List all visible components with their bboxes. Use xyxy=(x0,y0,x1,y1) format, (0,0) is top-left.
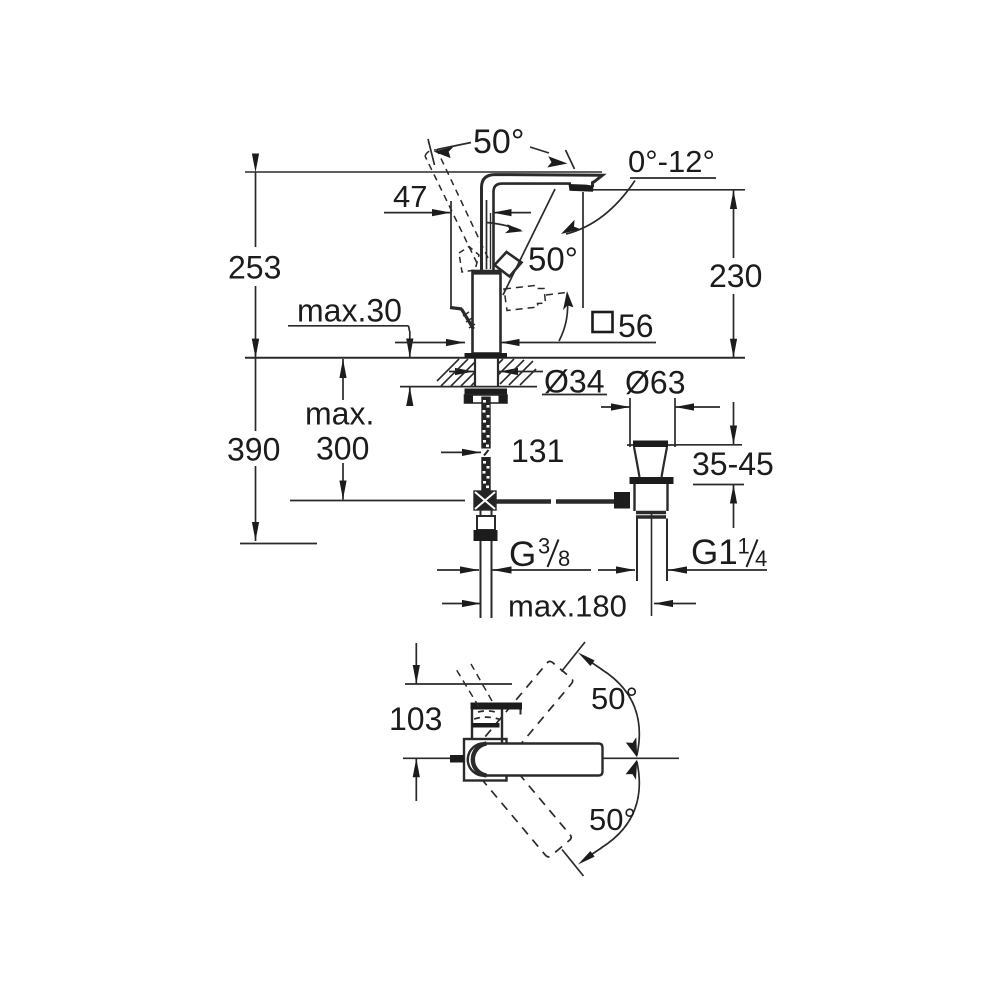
svg-text:Ø34: Ø34 xyxy=(544,364,604,400)
aerator block xyxy=(569,184,594,192)
spout outline inner xyxy=(494,184,572,270)
node 0-12 reference line xyxy=(630,177,716,179)
svg-text:max.: max. xyxy=(305,396,374,432)
svg-text:4: 4 xyxy=(755,546,767,571)
cross fitting xyxy=(474,491,496,510)
handle forward-position foot xyxy=(450,308,475,330)
dimension G3/8 arrows xyxy=(437,569,591,571)
dimension diameter 63 extension and arrows xyxy=(601,398,720,447)
top view body front bar xyxy=(472,723,500,728)
threaded stud pattern xyxy=(481,397,490,492)
handle 50 deg axis diagonal xyxy=(503,189,555,295)
svg-text:Ø63: Ø63 xyxy=(625,365,685,401)
dimension max.180 arrows xyxy=(442,603,696,605)
shank through deck xyxy=(475,358,498,387)
waste rod nub xyxy=(614,492,630,509)
hose connector below cross xyxy=(474,510,498,541)
top view spout arm xyxy=(472,709,502,743)
top view aerator bar xyxy=(471,703,523,710)
svg-text:50°: 50° xyxy=(589,802,636,837)
svg-text:max.30: max.30 xyxy=(297,293,402,329)
dashed handle lowered-right position xyxy=(504,286,546,311)
arc top view lower 50 xyxy=(601,762,639,848)
dashed handle raised-left position xyxy=(425,150,488,263)
dimension max.30 leader and arrows xyxy=(288,326,410,400)
svg-text:300: 300 xyxy=(316,431,369,467)
svg-text:253: 253 xyxy=(228,250,281,286)
dimension 131 arrow xyxy=(441,451,481,453)
svg-text:103: 103 xyxy=(389,701,442,737)
dimension 390 vertical line xyxy=(240,358,317,544)
svg-text:131: 131 xyxy=(511,433,564,469)
svg-text:50°: 50° xyxy=(591,681,638,716)
arc handle-down leader xyxy=(559,296,568,341)
dimension 253 vertical line xyxy=(255,173,257,358)
dimension diameter 34 arrows xyxy=(449,372,607,395)
dimension 103 vertical arrows xyxy=(415,643,417,801)
svg-text:50°: 50° xyxy=(473,123,524,161)
dimension 35-45 vertical arrows xyxy=(677,402,744,528)
svg-text:3: 3 xyxy=(538,534,550,559)
top view dashed lever upper 50 xyxy=(466,660,574,780)
dimension 230 vertical line xyxy=(588,190,745,358)
label square 56 xyxy=(593,308,654,344)
arc 0-12 swing xyxy=(566,181,635,235)
top view swivel dashes xyxy=(456,664,492,707)
svg-text:1: 1 xyxy=(738,534,750,559)
node topref : top reference line xyxy=(245,171,602,173)
faucet body xyxy=(473,271,501,354)
arc 50 inner xyxy=(487,223,521,231)
svg-text:G: G xyxy=(509,535,536,574)
wire deck line xyxy=(245,357,745,359)
label G3/8 xyxy=(509,534,570,575)
label G1 1/4 xyxy=(691,533,767,572)
svg-text:47: 47 xyxy=(393,179,427,214)
waste tailpipe xyxy=(637,512,667,616)
dimension G1 1/4 arrows xyxy=(598,569,767,571)
svg-text:230: 230 xyxy=(709,258,762,294)
top 50 deg arc ticks and arrows xyxy=(428,139,575,169)
svg-text:0°-12°: 0°-12° xyxy=(628,144,715,179)
svg-text:max.180: max.180 xyxy=(508,589,627,624)
waste flange xyxy=(627,441,677,478)
pop-up rod xyxy=(496,499,614,504)
svg-text:390: 390 xyxy=(227,432,280,468)
dimension body width 56 arrows xyxy=(395,342,656,344)
body base plate xyxy=(465,353,508,358)
top view handle lever xyxy=(468,743,603,775)
svg-text:8: 8 xyxy=(558,546,570,571)
top view dome dashed arcs xyxy=(478,711,497,713)
handle stem line xyxy=(486,200,488,269)
dashed handle knob left xyxy=(459,247,479,273)
svg-text:56: 56 xyxy=(618,308,654,344)
waste body xyxy=(635,484,668,517)
svg-text:35-45: 35-45 xyxy=(692,446,774,482)
deck hatching xyxy=(437,359,536,386)
top view spout nub xyxy=(450,755,464,763)
svg-text:50°: 50° xyxy=(528,241,578,278)
dimension 47 arrow xyxy=(384,212,531,214)
top view dashed lever lower 50 xyxy=(465,738,573,858)
node top view center line xyxy=(403,757,679,759)
node top view reference line xyxy=(405,683,512,685)
threaded stud upper xyxy=(0,0,1,1)
node aerator extension line xyxy=(582,192,584,308)
top view base square xyxy=(464,739,507,781)
waste seal ring xyxy=(630,477,674,484)
dimension max.300 vertical line xyxy=(290,359,465,501)
G3/8 pipe xyxy=(481,541,492,618)
arc top view upper 50 xyxy=(601,669,639,755)
mounting nut xyxy=(465,395,508,403)
node handle extension line x451 xyxy=(450,201,452,309)
wire slab bottom line xyxy=(400,386,537,388)
washer under deck xyxy=(465,389,508,396)
svg-text:G1: G1 xyxy=(691,533,738,572)
spout outline outer xyxy=(482,175,603,270)
handle knob solid rotated xyxy=(495,252,522,277)
